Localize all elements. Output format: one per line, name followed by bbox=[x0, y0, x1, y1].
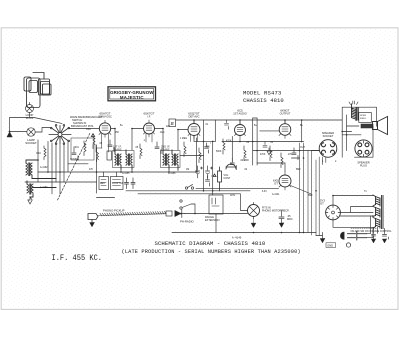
svg-text:.005: .005 bbox=[205, 147, 210, 149]
wire T5 connections bbox=[260, 131, 300, 158]
ground at pickup bbox=[90, 223, 95, 227]
speaker box outline bbox=[342, 107, 376, 157]
B marker box bbox=[169, 119, 176, 127]
svg-text:GT: GT bbox=[320, 202, 324, 206]
svg-text:MFD: MFD bbox=[287, 218, 293, 221]
speaker socket label bbox=[322, 131, 334, 138]
osc coil L1 bbox=[26, 160, 56, 179]
wire T1 grid to switch bbox=[69, 128, 99, 130]
svg-text:SCHEMATIC DIAGRAM - CHASSIS 48: SCHEMATIC DIAGRAM - CHASSIS 4810 bbox=[155, 240, 266, 247]
IF transformer T1 bbox=[115, 150, 132, 169]
svg-text:OSC: OSC bbox=[86, 129, 91, 131]
ground left of plug bbox=[316, 233, 323, 239]
cap C5 bbox=[263, 142, 271, 155]
wire y141.4 bbox=[194, 136, 215, 142]
IF transformer T1 box bbox=[113, 151, 135, 168]
wire detector row bbox=[180, 138, 204, 172]
svg-text:6.3V: 6.3V bbox=[262, 191, 267, 193]
riser stubs to tubes bbox=[194, 120, 302, 142]
resistor R6 bbox=[199, 148, 201, 163]
phono pickup bbox=[88, 214, 98, 223]
oscillator section box bbox=[71, 138, 94, 160]
ground under ant coil bbox=[28, 197, 32, 204]
svg-text:470K: 470K bbox=[226, 141, 232, 143]
svg-text:TRANS: TRANS bbox=[161, 149, 170, 152]
tube V3 6SQ7GT det-avc bbox=[188, 121, 200, 139]
model/chassis text bbox=[243, 90, 284, 105]
tube V3 label bbox=[188, 112, 200, 119]
wire left rail x38 bbox=[37, 140, 39, 182]
resistor R1 bbox=[44, 146, 46, 160]
switch wafer wires bbox=[48, 142, 68, 194]
resistor R8 bbox=[244, 146, 246, 161]
antenna lead wire bbox=[10, 113, 63, 133]
phono motor label bbox=[262, 207, 289, 213]
loop plug P1 bbox=[26, 103, 34, 113]
fuse bottom bbox=[346, 243, 350, 247]
svg-text:TUNING: TUNING bbox=[70, 159, 79, 161]
wire y182 left bbox=[25, 181, 97, 183]
wire IFT1 sec to T2 bbox=[132, 129, 144, 151]
line filter label bbox=[205, 216, 220, 222]
IF transformer T2 label bbox=[161, 146, 170, 152]
svg-text:A-4155: A-4155 bbox=[122, 172, 130, 175]
wire lamp to left bbox=[10, 131, 27, 133]
loop plug label bbox=[26, 113, 34, 120]
speaker socket J1 bbox=[319, 140, 337, 158]
volume control label bbox=[224, 174, 231, 180]
cap near V4 grid bbox=[225, 120, 231, 129]
wave band switch labels bbox=[70, 115, 103, 128]
tube V1 6SA7GT converter bbox=[99, 120, 111, 148]
wire y150.5 bbox=[253, 150, 319, 152]
cap C20 label bbox=[287, 215, 293, 221]
top grid bus wire bbox=[176, 119, 342, 121]
phono plug arrow bbox=[175, 211, 181, 217]
svg-text:SOCKET: SOCKET bbox=[323, 134, 334, 138]
svg-text:.0001: .0001 bbox=[73, 147, 79, 149]
svg-text:SPKR: SPKR bbox=[360, 115, 366, 117]
electrolytic C7 bbox=[226, 164, 236, 169]
GND label bbox=[327, 243, 333, 247]
wire vertical x96 bbox=[97, 145, 115, 198]
caps bottom right bbox=[372, 227, 378, 236]
svg-text:I.F. 455 KC.: I.F. 455 KC. bbox=[52, 254, 103, 263]
loop antenna bbox=[24, 73, 51, 108]
svg-text:A-4156: A-4156 bbox=[168, 172, 176, 175]
bottom captions bbox=[122, 237, 301, 256]
antenna arrow bbox=[7, 132, 12, 137]
rectifier label bbox=[320, 199, 325, 206]
AC cord wires bbox=[367, 216, 374, 238]
wire T1 plate to IFT1 bbox=[111, 129, 115, 151]
tube V4 label bbox=[233, 109, 247, 116]
svg-text:PH-RADIO: PH-RADIO bbox=[180, 220, 194, 224]
svg-text:22K: 22K bbox=[166, 126, 171, 128]
IF transformer T2 bbox=[163, 150, 178, 169]
field coil winding bbox=[361, 124, 373, 128]
speaker plug label bbox=[357, 161, 369, 168]
speaker horn bbox=[373, 117, 388, 135]
speaker plug J2 bbox=[355, 140, 372, 157]
tube V5 label bbox=[280, 109, 291, 116]
power supply wiring bbox=[333, 196, 373, 228]
wire bus y190.8 bbox=[126, 190, 250, 192]
cap C20 .05MFD bbox=[279, 210, 284, 223]
svg-text:FIELD: FIELD bbox=[360, 118, 367, 120]
tube V6 6X5GT bbox=[279, 172, 291, 190]
IF transformer T1 label bbox=[113, 146, 122, 152]
tube V2 label bbox=[143, 112, 154, 119]
wire T2 plate to IFT2 bbox=[155, 129, 164, 151]
IF transformer T2 box bbox=[161, 151, 181, 168]
phono wire to motor bbox=[185, 194, 248, 214]
wires speaker area bbox=[311, 126, 361, 151]
svg-text:8MF: 8MF bbox=[296, 169, 301, 171]
resistor 470K bbox=[223, 139, 225, 154]
AC plug label bbox=[351, 230, 393, 233]
electrolytic caps below T3 bbox=[196, 166, 203, 178]
wire lamp right bbox=[35, 128, 50, 133]
wire IFT2 sec to T3 bbox=[178, 130, 188, 151]
ground below motor bbox=[251, 219, 256, 228]
svg-text:.02 MFD: .02 MFD bbox=[240, 160, 249, 162]
svg-text:1ST AUDIO: 1ST AUDIO bbox=[233, 112, 247, 116]
cap C4 bbox=[230, 158, 236, 170]
tube V5 6K6GT output bbox=[279, 121, 291, 139]
svg-text:OSC: OSC bbox=[36, 153, 41, 155]
AC plug bbox=[341, 232, 367, 240]
shielded cable bbox=[98, 211, 166, 216]
svg-text:47K: 47K bbox=[89, 169, 94, 171]
svg-text:B: B bbox=[171, 121, 174, 126]
resistor R2 bbox=[84, 141, 86, 156]
wire y141.5 long bbox=[222, 141, 304, 143]
terminal box risers bbox=[104, 172, 117, 177]
cap C6 bbox=[292, 148, 298, 160]
svg-text:CHASSIS 4810: CHASSIS 4810 bbox=[243, 97, 284, 104]
phono motor plug P2 bbox=[248, 203, 260, 219]
terminal box 2 bbox=[111, 177, 124, 190]
svg-text:MAJESTIC: MAJESTIC bbox=[120, 95, 144, 100]
caps right of boxes bbox=[125, 178, 136, 189]
resistor R4 bbox=[140, 144, 142, 159]
svg-text:470K: 470K bbox=[260, 154, 266, 156]
svg-text:PLUG: PLUG bbox=[360, 164, 367, 168]
audio box verticals bbox=[204, 120, 233, 195]
cap C3 bbox=[155, 142, 161, 154]
T2 pin drops bbox=[146, 134, 152, 142]
tube V1 label bbox=[98, 112, 112, 119]
svg-text:PHONO PICKUP: PHONO PICKUP bbox=[103, 209, 125, 213]
grid resistor near T1 bbox=[91, 134, 95, 149]
lamp socket label bbox=[25, 138, 37, 145]
svg-text:I.F.: I.F. bbox=[147, 115, 151, 119]
svg-text:A-4140: A-4140 bbox=[232, 237, 242, 240]
radio-phono switch S2 bbox=[180, 200, 195, 213]
filter box drop wire bbox=[215, 214, 217, 233]
terminal box 1 bbox=[99, 177, 109, 190]
output transformer T3 bbox=[349, 101, 358, 121]
svg-text:GT: GT bbox=[274, 182, 278, 186]
AVC bus wire bbox=[38, 171, 198, 173]
svg-text:LOOP TAP: LOOP TAP bbox=[112, 182, 124, 185]
cap C2 bbox=[108, 140, 114, 152]
wires down from speaker to power bbox=[316, 157, 319, 236]
svg-text:CONV-OSC: CONV-OSC bbox=[98, 115, 112, 119]
svg-text:AVC: AVC bbox=[160, 131, 165, 134]
svg-text:GND: GND bbox=[327, 243, 333, 247]
radio-phono switch label bbox=[180, 220, 194, 224]
svg-text:DET-AVC: DET-AVC bbox=[188, 115, 199, 119]
svg-text:OUT: OUT bbox=[300, 147, 305, 149]
svg-text:REC: REC bbox=[100, 183, 105, 185]
volume control R9 bbox=[213, 167, 222, 191]
cap C1 bbox=[72, 148, 78, 160]
ground below C20 bbox=[279, 223, 284, 227]
svg-text:MODEL RS473: MODEL RS473 bbox=[243, 90, 282, 97]
audio section caps bbox=[205, 143, 211, 153]
bottom bus wire bbox=[172, 232, 316, 234]
svg-text:A-4141: A-4141 bbox=[272, 193, 280, 196]
svg-text:EXTENSION: EXTENSION bbox=[205, 219, 220, 222]
rectifier socket V7 5Y3GT bbox=[326, 205, 341, 220]
svg-text:SOCKET: SOCKET bbox=[25, 141, 37, 145]
T1 pin drops bbox=[96, 145, 109, 152]
svg-text:A-4163: A-4163 bbox=[40, 186, 48, 189]
tube V4 6C5 bbox=[235, 122, 246, 142]
svg-text:1 MEG: 1 MEG bbox=[180, 138, 187, 140]
wire bus y188 bbox=[196, 187, 279, 189]
long verticals right bbox=[300, 143, 312, 235]
GND label box bbox=[326, 243, 336, 248]
ant coil L2 bbox=[27, 181, 56, 197]
label box GRIGSBY-GRUNOW MAJESTIC bbox=[108, 87, 156, 101]
line filter box bbox=[209, 195, 223, 214]
tube V6 label bbox=[272, 179, 280, 197]
small text scatter bbox=[36, 124, 367, 197]
resistor R3 bbox=[97, 148, 99, 162]
svg-text:1M: 1M bbox=[186, 169, 189, 171]
IFT coil stubs to bus bbox=[121, 169, 178, 172]
T3 pin drops bbox=[191, 135, 198, 142]
svg-text:PHONO MOTOR RECP.: PHONO MOTOR RECP. bbox=[262, 210, 289, 213]
power transformer T4 bbox=[373, 195, 383, 229]
svg-text:OUTPUT: OUTPUT bbox=[280, 112, 291, 116]
svg-text:115V: 115V bbox=[230, 195, 236, 197]
svg-text:500K: 500K bbox=[216, 151, 222, 153]
ganged switch dashed link bbox=[351, 227, 377, 229]
svg-text:A-4162: A-4162 bbox=[40, 166, 48, 169]
IF frequency note bbox=[52, 254, 103, 263]
resistor R10 bbox=[270, 146, 272, 161]
small switch upper bbox=[185, 185, 193, 190]
wire y163.8 left bbox=[68, 163, 88, 165]
svg-text:8MF: 8MF bbox=[308, 195, 313, 197]
wire bus y193.8 bbox=[138, 193, 240, 195]
tube V2 6SK7GT IF amp bbox=[144, 120, 155, 137]
speaker field box bbox=[359, 113, 372, 123]
cable connector bbox=[166, 211, 172, 216]
svg-text:(LATE PRODUCTION - SERIAL NUMB: (LATE PRODUCTION - SERIAL NUMBERS HIGHER… bbox=[122, 249, 301, 255]
svg-text:BROADCAST POS.: BROADCAST POS. bbox=[71, 124, 94, 128]
resistor box right of T1 bbox=[107, 151, 112, 160]
resistor R5 bbox=[184, 142, 186, 157]
resistor R11 bbox=[281, 153, 283, 168]
svg-text:ON-OFF SW ON VOLUME CONTROL: ON-OFF SW ON VOLUME CONTROL bbox=[351, 230, 393, 233]
tuning gang dashed link bbox=[58, 133, 91, 200]
wave band switch S1 bbox=[49, 125, 71, 145]
phono pickup label bbox=[103, 209, 125, 213]
lamp socket bbox=[27, 128, 35, 136]
audio couple verticals bbox=[253, 118, 257, 165]
svg-text:CONT: CONT bbox=[224, 177, 231, 180]
label text GRIGSBY-GRUNOW MAJESTIC bbox=[110, 90, 154, 100]
